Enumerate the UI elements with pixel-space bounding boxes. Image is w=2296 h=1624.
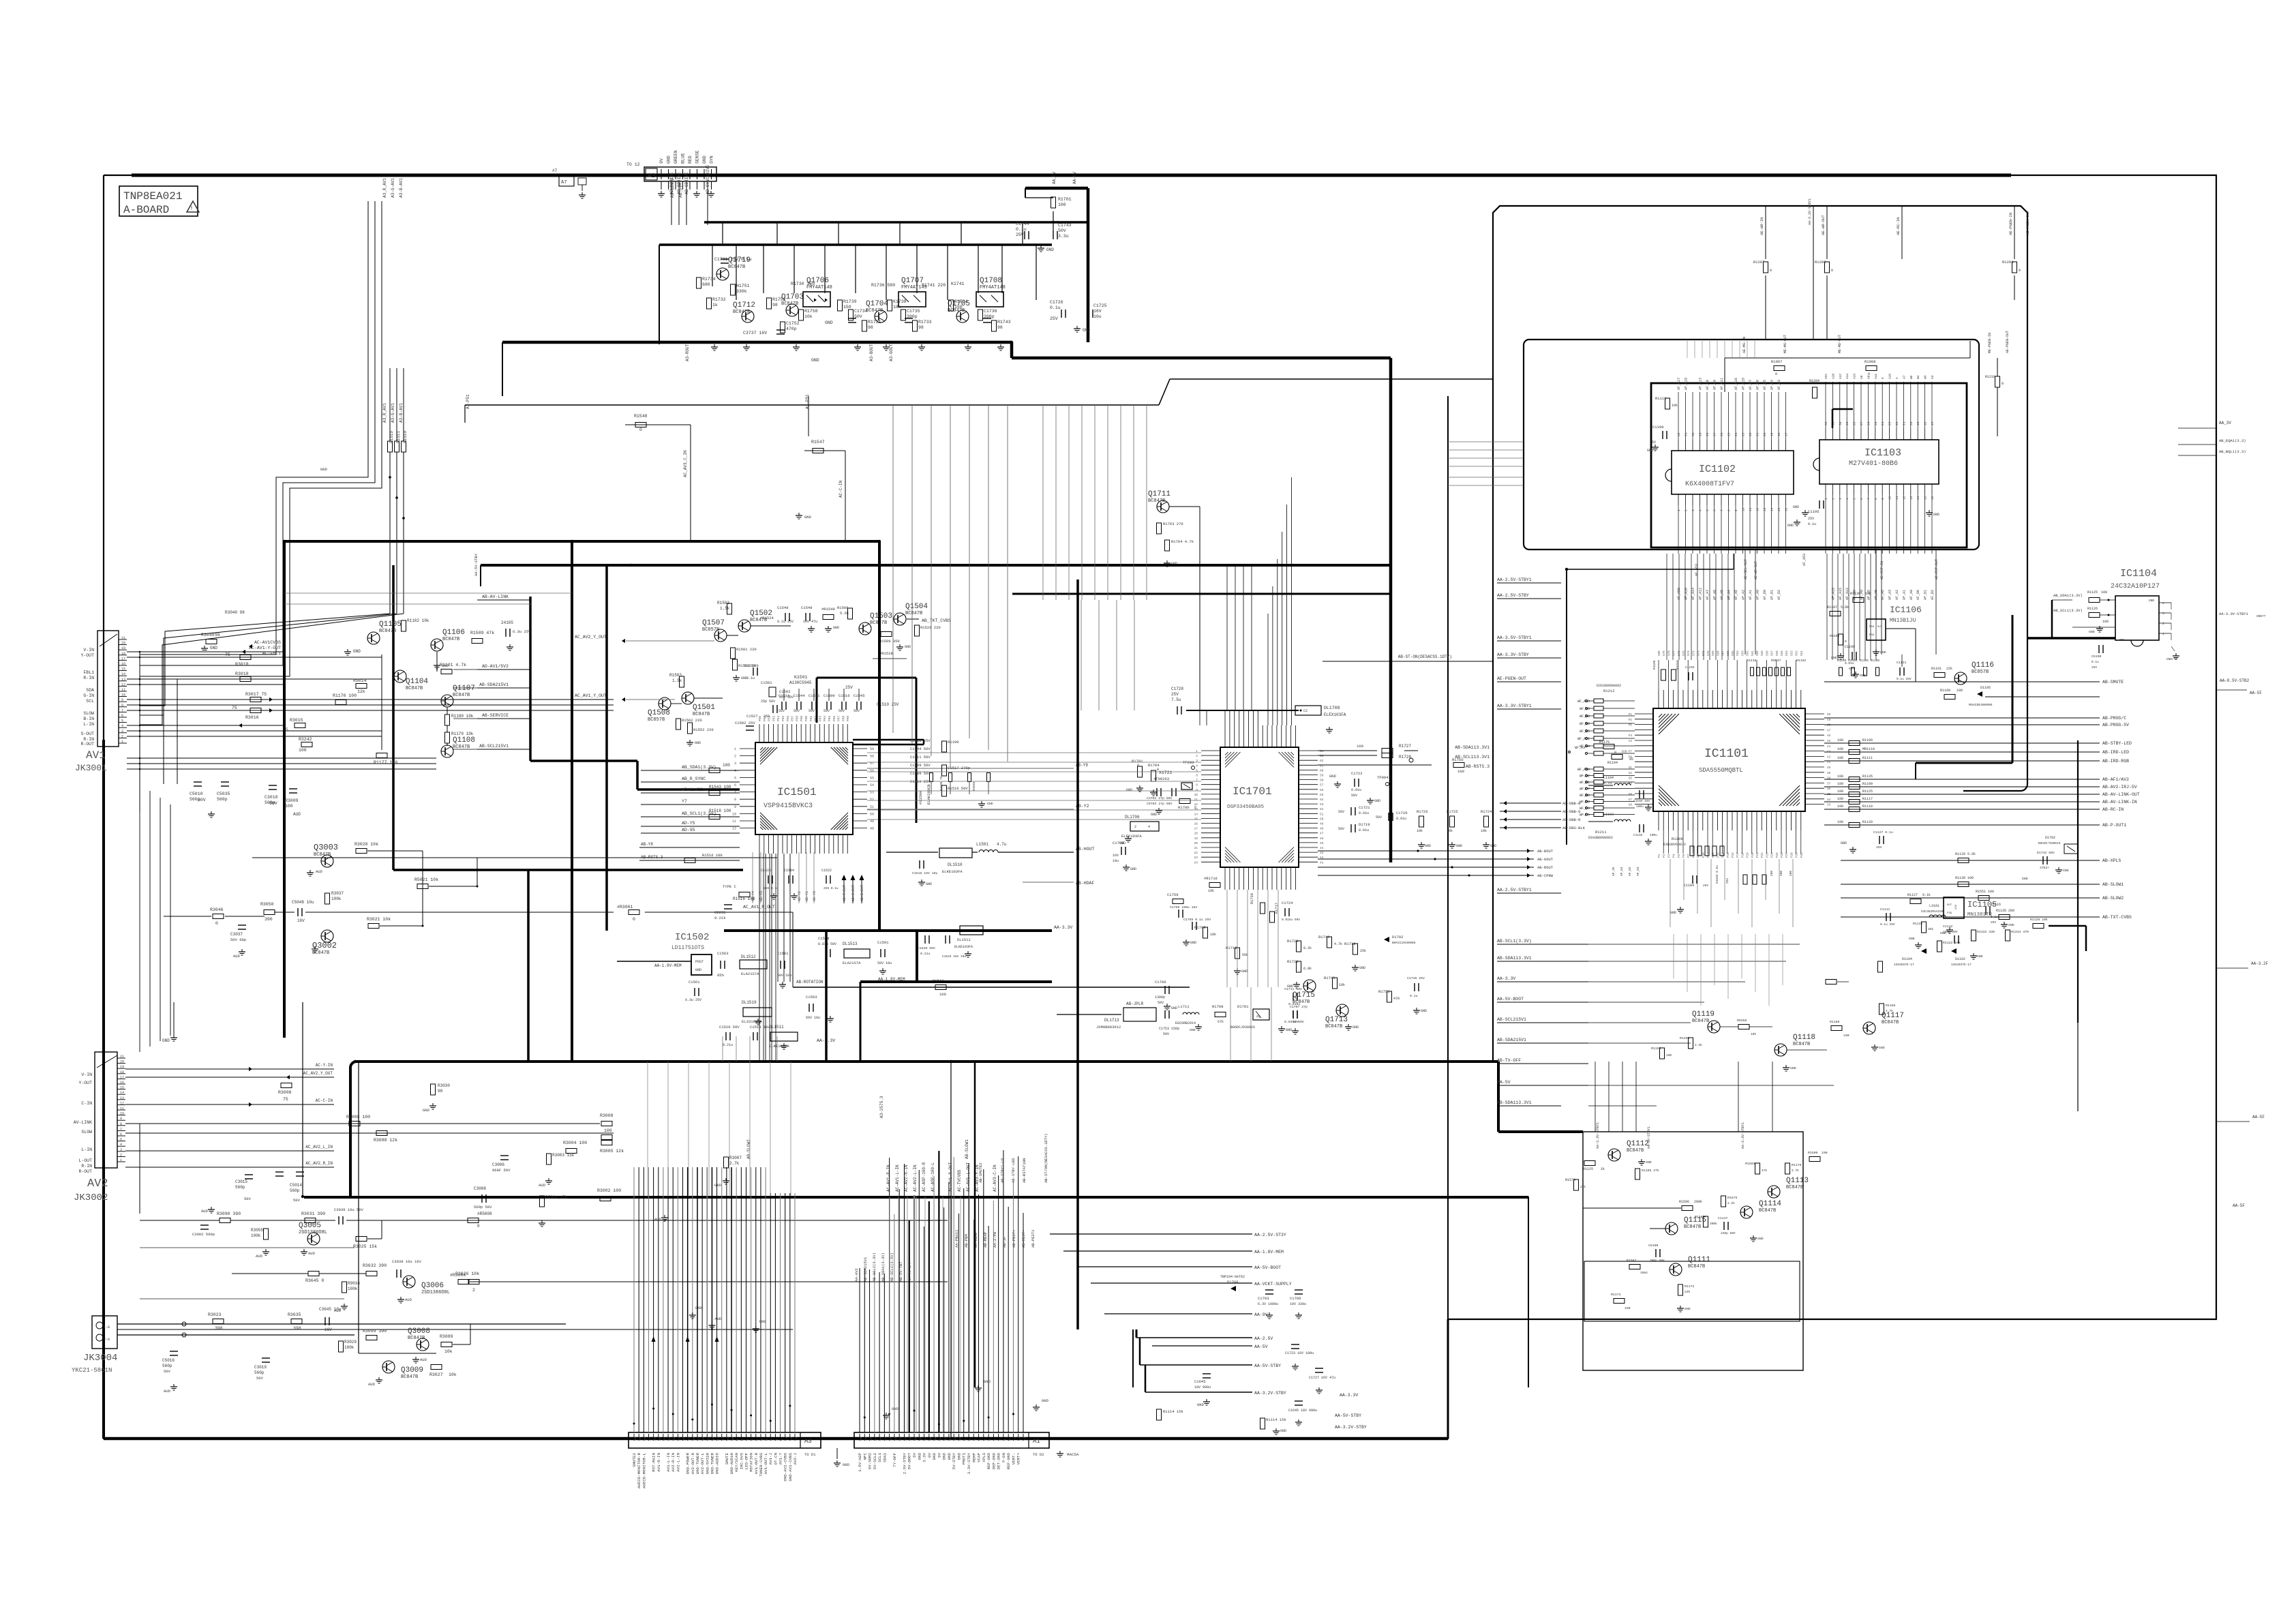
svg-text:C3737 16V: C3737 16V [743, 331, 767, 335]
svg-text:AC_AV3_C_IN: AC_AV3_C_IN [683, 450, 688, 477]
svg-text:100: 100 [1837, 805, 1843, 809]
svg-text:AC-ASP-100-R: AC-ASP-100-R [922, 1162, 926, 1192]
svg-text:R1543 100: R1543 100 [709, 785, 731, 790]
svg-text:GND: GND [1757, 1237, 1764, 1241]
svg-text:R1721: R1721 [1287, 959, 1299, 964]
svg-text:JXMAB003012: JXMAB003012 [1096, 1025, 1121, 1029]
svg-text:100k: 100k [251, 1233, 261, 1238]
svg-text:2: 2 [1196, 754, 1198, 758]
svg-text:17: 17 [1785, 432, 1789, 436]
svg-text:GND: GND [825, 320, 833, 325]
svg-text:98: 98 [772, 303, 778, 307]
svg-text:AB_BQL1(3.3): AB_BQL1(3.3) [2219, 449, 2246, 454]
svg-text:10k: 10k [1672, 404, 1678, 408]
svg-text:16V: 16V [324, 1327, 332, 1332]
svg-text:AB-SLOW2: AB-SLOW2 [2102, 896, 2124, 901]
svg-text:R1908: R1908 [1864, 359, 1876, 364]
svg-text:24: 24 [1194, 860, 1198, 864]
svg-text:10k: 10k [1447, 829, 1453, 833]
svg-text:C3008: C3008 [474, 1186, 486, 1191]
svg-text:S78: S78 [1667, 650, 1671, 656]
svg-text:49: 49 [1827, 719, 1831, 722]
svg-text:S59: S59 [1761, 650, 1764, 656]
svg-text:10: 10 [121, 693, 125, 697]
svg-text:B0ADC/930015: B0ADC/930015 [2038, 841, 2061, 845]
svg-text:PSG: PSG [1869, 626, 1875, 629]
svg-text:G3C362RAA330: G3C362RAA330 [1921, 909, 1944, 914]
svg-text:23: 23 [1742, 432, 1746, 436]
svg-text:R1764 4.7k: R1764 4.7k [1171, 539, 1194, 544]
svg-text:3.3V: 3.3V [922, 1452, 927, 1462]
svg-text:AF_A3: AF_A3 [1888, 590, 1892, 600]
svg-text:P56: P56 [786, 716, 790, 721]
svg-text:AUD: AUD [714, 1317, 722, 1321]
svg-text:SCL1: SCL1 [877, 1452, 882, 1462]
svg-text:5V-SOM2: 5V-SOM2 [868, 1452, 873, 1469]
svg-text:V: V [1895, 377, 1899, 379]
svg-text:2: 2 [2162, 622, 2164, 626]
svg-text:R1178: R1178 [1792, 1163, 1802, 1167]
svg-text:K6X4008T1FV7: K6X4008T1FV7 [1685, 481, 1734, 488]
svg-text:L1104: L1104 [1603, 776, 1614, 780]
svg-text:GND: GND [892, 1407, 899, 1411]
svg-text:Q1108: Q1108 [453, 736, 475, 745]
svg-text:2.2k: 2.2k [1727, 1201, 1735, 1205]
svg-text:12: 12 [1902, 496, 1906, 500]
svg-text:AV2-J: AV2-J [793, 1453, 798, 1464]
svg-text:GND: GND [1329, 774, 1337, 779]
svg-text:40: 40 [1827, 766, 1831, 770]
svg-text:6: 6 [734, 783, 736, 787]
svg-text:24: 24 [1734, 432, 1738, 436]
svg-text:R3040: R3040 [201, 633, 215, 637]
svg-text:AA-5F: AA-5F [2233, 1203, 2245, 1208]
svg-text:SMUTE2: SMUTE2 [632, 1452, 637, 1467]
svg-text:GND: GND [1130, 867, 1136, 871]
svg-text:29: 29 [638, 1437, 642, 1441]
svg-text:R1135: R1135 [1862, 775, 1873, 779]
svg-text:P67: P67 [837, 716, 841, 721]
svg-text:10: 10 [1888, 496, 1892, 500]
svg-text:ELEX103FA: ELEX103FA [1121, 834, 1142, 839]
svg-text:AF_A5: AF_A5 [1734, 590, 1738, 600]
svg-text:NFC: NFC [862, 1452, 867, 1460]
svg-text:AA-3.3V-STBY1: AA-3.3V-STBY1 [1497, 704, 1532, 708]
svg-text:P50: P50 [758, 716, 762, 721]
svg-text:AF_A16: AF_A16 [1734, 378, 1738, 390]
svg-text:AF_A15: AF_A15 [1831, 588, 1835, 600]
svg-text:C3006: C3006 [492, 1162, 504, 1167]
svg-text:GND: GND [1171, 1006, 1177, 1010]
svg-text:A3-B-AV1: A3-B-AV1 [399, 178, 404, 198]
svg-text:4.7k: 4.7k [1334, 942, 1342, 946]
svg-text:BC847B: BC847B [1293, 999, 1310, 1005]
svg-text:4: 4 [1845, 498, 1849, 500]
svg-text:0.01u: 0.01u [1359, 811, 1369, 815]
svg-text:S74: S74 [1687, 650, 1691, 656]
svg-text:560p: 560p [217, 797, 228, 802]
svg-text:R1188: R1188 [1830, 1020, 1840, 1024]
svg-text:KEY/SCAN: KEY/SCAN [734, 1452, 739, 1471]
svg-text:8: 8 [968, 1439, 972, 1441]
svg-text:WF_O7: WF_O7 [1580, 787, 1590, 792]
svg-text:AUD: AUD [308, 1251, 316, 1256]
svg-text:AE-PGEN-OUT: AE-PGEN-OUT [2006, 331, 2010, 353]
svg-text:GND: GND [1286, 1028, 1292, 1032]
svg-text:AB-JPLR: AB-JPLR [1126, 1002, 1144, 1006]
svg-text:18: 18 [692, 1437, 696, 1441]
svg-text:ME-MD-OUT: ME-MD-OUT [1838, 335, 1842, 353]
svg-text:R3008: R3008 [600, 1113, 614, 1118]
svg-text:58: 58 [1320, 779, 1324, 783]
svg-text:25V: 25V [1171, 692, 1179, 697]
svg-text:AC_AV1_Y_OUT: AC_AV1_Y_OUT [575, 693, 607, 698]
svg-text:GND: GND [1793, 505, 1799, 509]
svg-text:S77: S77 [1673, 650, 1676, 656]
svg-text:IC1104: IC1104 [2120, 568, 2157, 580]
svg-text:D1742 50V: D1742 50V [2037, 851, 2055, 855]
svg-text:24: 24 [889, 1437, 893, 1441]
svg-text:R1138: R1138 [1913, 922, 1923, 926]
svg-text:#R3061: #R3061 [617, 905, 633, 909]
svg-text:AB-XPLS: AB-XPLS [2102, 858, 2121, 863]
svg-text:10k: 10k [449, 1372, 457, 1377]
svg-text:R1172: R1172 [1685, 1284, 1695, 1289]
svg-text:22k: 22k [1946, 667, 1952, 671]
svg-text:5: 5 [1194, 806, 1196, 810]
svg-text:C1520 50V: C1520 50V [918, 946, 935, 950]
svg-text:ELEX103FA: ELEX103FA [1324, 712, 1346, 717]
svg-text:AB-SYNCDRIVE: AB-SYNCDRIVE [706, 164, 710, 194]
svg-text:R3007: R3007 [729, 1156, 742, 1160]
svg-text:20: 20 [1194, 841, 1198, 845]
svg-text:0: 0 [2002, 382, 2004, 386]
svg-text:21: 21 [120, 1055, 124, 1059]
svg-text:OUT: OUT [1877, 626, 1883, 629]
svg-text:R1118: R1118 [1862, 805, 1873, 809]
svg-text:10k: 10k [1481, 829, 1487, 833]
svg-text:C1645 18V 990u: C1645 18V 990u [1288, 1409, 1317, 1413]
svg-text:C1563: C1563 [717, 951, 729, 956]
svg-text:100: 100 [1837, 790, 1843, 794]
svg-text:REF-GND: REF-GND [986, 1452, 991, 1469]
svg-text:P18: P18 [1741, 852, 1744, 858]
svg-text:GND: GND [759, 1319, 767, 1324]
svg-text:DL1708: DL1708 [1324, 706, 1340, 710]
svg-text:AD-Y2: AD-Y2 [798, 891, 802, 901]
svg-text:C1184: C1184 [1684, 884, 1694, 888]
svg-text:AF_A2: AF_A2 [1895, 590, 1899, 600]
svg-text:C1746 25V: C1746 25V [1407, 976, 1425, 980]
svg-text:8: 8 [1196, 783, 1198, 787]
svg-text:GND: GND [1787, 524, 1794, 528]
svg-text:AB_R_SYNC: AB_R_SYNC [682, 777, 706, 781]
svg-text:P65: P65 [828, 716, 832, 721]
svg-text:100k: 100k [348, 1287, 358, 1291]
svg-text:8: 8 [1727, 509, 1732, 511]
svg-text:AUD: AUD [293, 812, 301, 817]
svg-text:C111Y: C111Y [1718, 1216, 1728, 1220]
svg-text:20: 20 [1763, 432, 1767, 436]
svg-text:AE-MG-IN: AE-MG-IN [1742, 337, 1747, 353]
svg-text:AUD: AUD [256, 1254, 263, 1259]
svg-text:C1645: C1645 [1194, 1379, 1206, 1384]
svg-text:2: 2 [1831, 498, 1835, 500]
svg-text:AF_A53: AF_A53 [1802, 554, 1807, 566]
svg-text:R1734: R1734 [954, 299, 968, 304]
svg-text:AF_A15: AF_A15 [1839, 588, 1843, 600]
svg-text:52: 52 [870, 798, 874, 802]
svg-text:A3-BOUT: A3-BOUT [869, 344, 874, 361]
svg-text:L-OUT: L-OUT [78, 1158, 92, 1163]
svg-text:47: 47 [1320, 832, 1324, 836]
svg-text:1: 1 [1677, 509, 1681, 511]
svg-text:1: 1 [774, 1439, 779, 1441]
svg-text:AD-DBB-R: AD-DBB-R [1562, 817, 1581, 822]
svg-text:12: 12 [732, 827, 736, 831]
svg-text:0: 0 [477, 1224, 480, 1229]
svg-text:5: 5 [983, 1439, 987, 1441]
svg-text:21: 21 [677, 1437, 681, 1441]
svg-text:P17: P17 [1736, 852, 1740, 858]
svg-text:S68: S68 [1717, 650, 1720, 656]
svg-text:AA-1.8V-MEM: AA-1.8V-MEM [1254, 1250, 1284, 1254]
svg-text:50V 10u: 50V 10u [877, 961, 892, 965]
svg-text:200k: 200k [1694, 1200, 1702, 1204]
svg-text:6.3V 1000u: 6.3V 1000u [1258, 1302, 1278, 1306]
svg-text:-3: -3 [1023, 1437, 1027, 1441]
svg-text:Q1111: Q1111 [1688, 1256, 1710, 1264]
svg-text:AF_A0: AF_A0 [1756, 590, 1760, 600]
svg-text:100: 100 [1837, 782, 1843, 786]
svg-text:R1547: R1547 [811, 440, 825, 445]
svg-text:30: 30 [859, 1437, 863, 1441]
svg-text:100: 100 [1357, 744, 1363, 749]
svg-text:S72: S72 [1697, 650, 1701, 656]
svg-text:AB-SMUTE: AB-SMUTE [2102, 680, 2124, 685]
svg-text:ROTATION: ROTATION [749, 1452, 754, 1471]
svg-text:P25: P25 [1776, 852, 1779, 858]
svg-text:Q1711: Q1711 [1148, 490, 1170, 498]
svg-text:P22: P22 [1761, 852, 1764, 858]
svg-text:GND: GND [956, 1452, 961, 1460]
svg-text:C1199: C1199 [1845, 645, 1855, 649]
svg-text:ME-MG-OUT: ME-MG-OUT [1783, 335, 1787, 353]
svg-text:22: 22 [898, 1437, 903, 1441]
svg-text:47E2+: 47E2+ [2040, 866, 2050, 870]
svg-text:5V-SCL2: 5V-SCL2 [873, 1452, 877, 1469]
svg-text:23: 23 [667, 1437, 671, 1441]
svg-text:AB-SDA215V1: AB-SDA215V1 [479, 682, 509, 687]
svg-text:C5016: C5016 [162, 1358, 175, 1363]
svg-text:AB-SCL1(3.3V): AB-SCL1(3.3V) [1497, 939, 1532, 944]
svg-text:100: 100 [2101, 590, 2107, 595]
svg-text:C1103: C1103 [1685, 665, 1695, 670]
svg-text:R1752: R1752 [772, 297, 786, 302]
svg-text:10: 10 [731, 1437, 735, 1441]
svg-text:G-IN: G-IN [83, 693, 94, 698]
svg-text:AB-AV-LINK: AB-AV-LINK [482, 595, 509, 599]
svg-text:YKC21-5861N: YKC21-5861N [72, 1367, 112, 1374]
svg-text:0: 0 [639, 427, 642, 432]
svg-text:C1190: C1190 [1652, 425, 1664, 430]
svg-text:12: 12 [120, 1101, 124, 1105]
svg-text:ELA21S7A: ELA21S7A [843, 961, 861, 965]
svg-text:R3088 12k: R3088 12k [374, 1138, 397, 1143]
svg-text:2: 2 [1685, 509, 1689, 511]
svg-text:C1520 50V: C1520 50V [719, 1025, 740, 1029]
svg-text:GND: GND [1977, 954, 1983, 959]
svg-text:AB-SLOW1: AB-SLOW1 [2102, 882, 2124, 887]
svg-text:0.21u: 0.21u [723, 1043, 733, 1047]
svg-text:S73: S73 [1692, 650, 1695, 656]
svg-text:B-IN: B-IN [83, 717, 94, 721]
svg-text:5.6k: 5.6k [840, 611, 849, 616]
svg-text:AB-AF1/AV2: AB-AF1/AV2 [2102, 777, 2129, 782]
svg-text:WF_A9: WF_A9 [1580, 722, 1590, 726]
svg-text:A14: A14 [1845, 374, 1849, 379]
svg-text:R1780: R1780 [1178, 805, 1190, 810]
svg-text:AB-GOUT: AB-GOUT [1537, 857, 1554, 862]
svg-text:R3009: R3009 [285, 798, 299, 803]
svg-text:300p 50V: 300p 50V [1650, 1259, 1665, 1263]
svg-text:2: 2 [120, 1153, 122, 1157]
svg-text:37: 37 [1827, 782, 1831, 785]
svg-text:P26: P26 [1781, 852, 1784, 858]
svg-text:AV1-?: AV1-? [779, 1452, 783, 1464]
svg-text:AE-PGEN-OUT: AE-PGEN-OUT [1497, 676, 1526, 681]
svg-text:WF_O0: WF_O0 [1580, 807, 1590, 811]
svg-text:B0ACC2930005: B0ACC2930005 [1392, 941, 1416, 945]
svg-text:AD-Y4: AD-Y4 [751, 891, 755, 901]
svg-text:IC1102: IC1102 [1699, 464, 1736, 475]
svg-text:0.1u 25V: 0.1u 25V [1897, 677, 1912, 681]
svg-text:M27V401-80B6: M27V401-80B6 [1849, 460, 1898, 468]
svg-text:10k: 10k [1208, 889, 1214, 893]
svg-text:AB-SDA215V1: AB-SDA215V1 [863, 1257, 868, 1282]
svg-text:R1528 220: R1528 220 [920, 625, 941, 630]
svg-text:AC-TVCVBS: AC-TVCVBS [957, 1169, 962, 1192]
svg-text:C1591: C1591 [877, 940, 889, 945]
svg-text:390: 390 [265, 917, 273, 922]
svg-text:A3-G-AV1: A3-G-AV1 [391, 178, 395, 198]
svg-text:GND: GND [702, 155, 707, 164]
svg-text:AA_5V: AA_5V [1052, 172, 1057, 184]
svg-text:AB-SLOW1: AB-SLOW1 [965, 1139, 969, 1159]
svg-text:AB-SDA113.3V1: AB-SDA113.3V1 [1497, 956, 1532, 961]
svg-text:1084: 1084 [1640, 1271, 1648, 1275]
svg-text:100: 100 [1837, 797, 1843, 801]
svg-text:GND: GND [714, 1183, 722, 1188]
svg-text:BC857B: BC857B [702, 627, 719, 633]
svg-text:R1589 47k: R1589 47k [470, 631, 494, 635]
svg-text:8: 8 [1874, 498, 1878, 500]
svg-text:C1726: C1726 [1050, 300, 1063, 305]
svg-text:47k: 47k [1762, 1169, 1767, 1173]
svg-text:50V: 50V [824, 709, 830, 713]
svg-text:GND77: GND77 [2256, 614, 2266, 618]
svg-text:P28: P28 [1790, 852, 1794, 858]
svg-text:R1129 5.6k: R1129 5.6k [1955, 852, 1976, 856]
svg-text:S57: S57 [1771, 650, 1774, 656]
svg-text:100: 100 [723, 763, 730, 768]
svg-text:19: 19 [687, 1437, 691, 1441]
svg-text:R1126 10k: R1126 10k [2030, 918, 2048, 922]
svg-text:3: 3 [765, 1439, 769, 1441]
svg-text:16V: 16V [297, 918, 305, 923]
svg-text:AC-AV1-Y-OUT: AC-AV1-Y-OUT [249, 646, 281, 650]
svg-text:R1175: R1175 [1599, 740, 1610, 745]
svg-text:22: 22 [672, 1437, 676, 1441]
svg-text:C1743: C1743 [1058, 223, 1072, 228]
svg-text:GND: GND [1042, 1398, 1049, 1403]
svg-text:C3019: C3019 [254, 1365, 267, 1370]
svg-text:GND: GND [1841, 841, 1847, 845]
svg-text:50V 68p: 50V 68p [230, 937, 246, 942]
svg-text:4.7k: 4.7k [1886, 1009, 1893, 1013]
svg-text:9: 9 [734, 805, 736, 809]
svg-text:AB-GDRIVE: AB-GDRIVE [684, 172, 689, 194]
svg-text:25: 25 [1874, 421, 1878, 425]
svg-text:DGP33450BA05: DGP33450BA05 [1227, 805, 1265, 810]
svg-text:AE-WR-OUT: AE-WR-OUT [1821, 215, 1826, 235]
svg-text:50V: 50V [293, 1198, 301, 1203]
svg-text:BC847B: BC847B [408, 1336, 425, 1341]
svg-text:19: 19 [1916, 421, 1920, 425]
svg-text:H1751: H1751 [736, 284, 750, 288]
svg-text:GND: GND [1647, 449, 1653, 453]
svg-text:13: 13 [716, 1437, 721, 1441]
svg-text:GND: GND [2089, 630, 2095, 634]
svg-text:MR1110: MR1110 [1862, 747, 1875, 751]
svg-text:AA-3.3V-STBY1: AA-3.3V-STBY1 [1808, 198, 1812, 225]
svg-text:25V: 25V [1876, 845, 1882, 849]
svg-text:14: 14 [121, 672, 125, 676]
svg-text:2SD1386O8L: 2SD1386O8L [299, 1230, 327, 1235]
svg-text:1: 1 [120, 1158, 122, 1162]
svg-text:Q1119: Q1119 [1692, 1010, 1715, 1019]
svg-text:5V: 5V [912, 1452, 917, 1457]
svg-text:P58: P58 [795, 716, 799, 721]
svg-text:#R1524: #R1524 [760, 616, 774, 620]
svg-text:50V 10u: 50V 10u [806, 1016, 820, 1020]
svg-text:C1759 100u 16V: C1759 100u 16V [1170, 905, 1197, 909]
svg-text:P66: P66 [832, 716, 836, 721]
svg-text:GND: GND [1359, 966, 1365, 970]
svg-text:2: 2 [472, 1288, 475, 1293]
svg-text:L-IN: L-IN [83, 722, 94, 727]
svg-text:D1105: D1105 [1980, 686, 1991, 690]
svg-text:25: 25 [883, 1437, 888, 1441]
svg-text:WF_A8: WF_A8 [1580, 715, 1590, 719]
svg-text:GND: GND [1879, 1046, 1885, 1050]
svg-text:15: 15 [706, 1437, 710, 1441]
svg-text:0.1u: 0.1u [1016, 227, 1027, 232]
svg-text:R1743: R1743 [997, 320, 1011, 325]
svg-text:100: 100 [1957, 689, 1963, 693]
svg-text:100k: 100k [344, 1345, 354, 1350]
svg-text:9: 9 [736, 1439, 740, 1441]
svg-text:12: 12 [948, 1437, 952, 1441]
svg-text:6: 6 [1860, 498, 1864, 500]
svg-text:R1724: R1724 [1481, 809, 1492, 814]
svg-text:R1592: R1592 [972, 781, 976, 791]
svg-text:0.1u: 0.1u [2091, 660, 2099, 664]
svg-text:AUD: AUD [368, 1382, 376, 1387]
svg-text:AB-ROTATION: AB-ROTATION [796, 980, 824, 984]
svg-text:AA-5V: AA-5V [1497, 1080, 1511, 1085]
svg-text:470p: 470p [786, 327, 797, 331]
